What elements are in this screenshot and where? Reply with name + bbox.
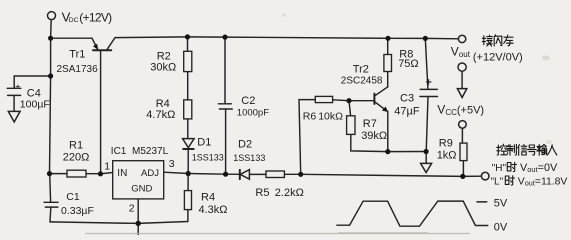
Vcc(+5V) arrow head [457, 89, 466, 98]
transistor Tr1 base lead [100, 50, 102, 174]
junction: Tr1 base / R1 / IC pin1 node [98, 171, 103, 176]
junction: R5 / R6 control node [298, 172, 303, 177]
transistor Tr1 emitter diagonal [92, 38, 98, 49]
wire: D1 cathode to ADJ row [187, 149, 189, 173]
svg-text:VCC(+5V): VCC(+5V) [437, 103, 484, 117]
node label: 输 (chinese) [537, 144, 547, 155]
wire: top rail right segment (Tr1 collector to Vout terminal) [115, 37, 458, 39]
wire: R6 to Tr2 base node [333, 99, 349, 102]
svg-text:2SA1736: 2SA1736 [57, 64, 99, 75]
junction: Tr2 emitter on ground row [385, 149, 390, 154]
svg-text:1SS133: 1SS133 [192, 152, 224, 162]
junction: C2 top on rail [222, 35, 227, 40]
scan artifact line at bottom [85, 233, 470, 235]
wire: bottom ground rail [50, 222, 188, 224]
svg-text:D2: D2 [238, 138, 252, 150]
wire: Tr2 base node down to R7 [349, 101, 351, 116]
wire: R6 branch vertical from control node [299, 100, 315, 175]
svg-text:2: 2 [129, 202, 135, 214]
svg-text:R4: R4 [156, 98, 170, 110]
resistor R9 1k body [460, 143, 467, 161]
transistor Tr2 base lead [349, 100, 374, 102]
wire: R4b column (ADJ node down to bottom rail) [187, 174, 189, 222]
resistor R4 4.3k body [184, 191, 191, 210]
resistor R4 4.7k body [184, 100, 192, 119]
waveform: control signal trace [337, 201, 488, 226]
node label: 号 (chinese) [527, 145, 536, 155]
waveform: 5V level dash [477, 201, 487, 203]
svg-text:IN: IN [117, 168, 127, 179]
svg-text:R1: R1 [69, 140, 83, 152]
wire: R8 top lead to rail [387, 38, 389, 54]
svg-text:39kΩ: 39kΩ [361, 130, 387, 142]
resistor R7 39k body [347, 116, 355, 135]
node label: 闪 (chinese) [494, 35, 502, 46]
svg-text:4.7kΩ: 4.7kΩ [146, 109, 175, 121]
junction: Tr2 base node [346, 98, 351, 103]
wire: C1 leads [50, 174, 51, 222]
wire: ADJ row (IC pin3 to D1 node to C2 node to D2) [164, 172, 240, 174]
svg-text:C4: C4 [27, 87, 41, 99]
svg-text:Vout: Vout [451, 45, 471, 59]
junction: R2 top on rail [185, 34, 190, 39]
node label: 控 (chinese) [497, 144, 507, 155]
diode D2 triangle [240, 170, 249, 180]
wire: R9 bottom lead to control row [462, 161, 464, 177]
wire: R4 to D1 anode [187, 119, 189, 138]
terminal: Vdc input [48, 12, 56, 20]
svg-text:2SC2458: 2SC2458 [341, 76, 383, 87]
wire: C3 column lower to ground node [426, 97, 428, 164]
ground symbol under C4 [8, 111, 20, 122]
node label: 接 (chinese) [482, 35, 492, 46]
transistor Tr2 emitter diagonal [375, 102, 387, 111]
transistor Tr1 2SA1736 (PNP) base bar [93, 49, 111, 51]
svg-text:5V: 5V [494, 198, 508, 210]
node label: 时 (chinese) after L [505, 176, 514, 185]
svg-text:R5: R5 [255, 187, 269, 199]
svg-text:1kΩ: 1kΩ [437, 149, 457, 161]
svg-text:10kΩ: 10kΩ [318, 111, 343, 123]
resistor R8 75 ohm body [384, 55, 392, 72]
svg-text:75Ω: 75Ω [398, 58, 418, 70]
wire: branch to C4 [14, 76, 50, 88]
svg-text:1SS133: 1SS133 [233, 153, 265, 163]
svg-text:VDC(+12V): VDC(+12V) [62, 9, 113, 24]
diode D2 1SS133 cathode bar [239, 170, 241, 179]
svg-text:C3: C3 [400, 93, 414, 105]
svg-text:R6: R6 [303, 111, 317, 123]
wire: D2 anode to R5 [250, 173, 267, 175]
svg-text:IC1: IC1 [111, 146, 127, 157]
svg-text:Tr1: Tr1 [69, 48, 85, 60]
junction: C4 branch [48, 73, 53, 78]
transistor Tr1 emitter arrow [93, 44, 98, 50]
node label: 存 (chinese) [504, 35, 514, 46]
node label: 信 (chinese) [518, 145, 527, 156]
svg-text:1000pF: 1000pF [237, 108, 269, 119]
svg-text:3: 3 [169, 158, 175, 170]
svg-text:GND: GND [131, 183, 152, 194]
svg-text:30kΩ: 30kΩ [150, 61, 176, 73]
wire: IC pin2 ground stub below rail [137, 199, 139, 235]
junction: R8 top on rail [385, 36, 390, 41]
svg-text:M5237L: M5237L [132, 146, 169, 157]
svg-text:D1: D1 [197, 136, 211, 148]
svg-text:220Ω: 220Ω [63, 151, 90, 163]
capacitor C2 1000pF plates [218, 104, 232, 109]
svg-text:R7: R7 [363, 118, 377, 130]
wire: R1 row (node to R1, R1 to Tr1 base node, node to IC pin1) [50, 173, 113, 174]
capacitor C4 100uF plates [7, 88, 21, 95]
junction: Vdc at top rail [48, 36, 53, 41]
svg-text:C1: C1 [66, 191, 80, 203]
svg-text:2.2kΩ: 2.2kΩ [275, 187, 304, 199]
wire: Vdc vertical feed (terminal down to R1 row) [50, 19, 52, 173]
svg-text:"H": "H" [492, 163, 507, 174]
capacitor C4 polarity plus [16, 85, 20, 89]
svg-text:0V: 0V [494, 222, 508, 234]
junction: R1 left node [47, 171, 52, 176]
svg-text:C2: C2 [241, 95, 255, 107]
svg-text:ADJ: ADJ [141, 168, 159, 179]
transistor Tr1 collector diagonal [107, 38, 115, 51]
node label: 时 (chinese) after H [507, 162, 516, 171]
wire: Tr2 emitter lead down [387, 111, 389, 151]
transistor Tr2 collector diagonal [375, 87, 388, 96]
svg-text:"L": "L" [491, 176, 504, 187]
svg-text:(+12V/0V): (+12V/0V) [473, 52, 523, 64]
transistor Tr2 emitter arrow [382, 107, 388, 112]
node label: 制 (chinese) [507, 144, 517, 155]
svg-text:4.3kΩ: 4.3kΩ [199, 204, 228, 216]
terminal: Vcc(+5V) feed to R9 [459, 121, 467, 129]
svg-text:47µF: 47µF [394, 106, 420, 118]
svg-text:Vout=0V: Vout=0V [520, 162, 558, 174]
junction: C3 ground node [424, 149, 429, 154]
junction: C3 top on rail [423, 36, 428, 41]
wire: R8 bottom to Tr2 collector [387, 72, 389, 87]
wire: top +12V rail left segment (Vdc node to Tr1 emitter) [51, 37, 92, 39]
wire: R7 bottom to emitter row [351, 134, 426, 151]
terminal: control signal input [481, 172, 489, 180]
wire: R5 to control node [284, 173, 300, 175]
wire: C2 column lower [225, 109, 227, 174]
op-amp-style regulator IC1 M5237L body [113, 161, 164, 199]
terminal: Vout [458, 35, 465, 42]
svg-text:1: 1 [104, 161, 110, 173]
svg-text:R9: R9 [439, 138, 453, 150]
diode D1 1SS133 triangle [183, 139, 195, 148]
wire: R2 to R4 link [187, 72, 189, 100]
junction: IC pin2 on bottom rail [136, 221, 141, 226]
wire: control row (R5 node to R9 node to control terminal) [301, 174, 482, 176]
diode D1 cathode bar [183, 148, 194, 150]
ground symbol under C3 [421, 163, 432, 172]
resistor R5 2.2k body [266, 171, 284, 178]
wire: C3 column upper [425, 38, 428, 89]
capacitor C3 polarity plus [426, 79, 432, 85]
svg-text:Vout=11.8V: Vout=11.8V [518, 176, 568, 187]
svg-text:0.33µF: 0.33µF [61, 205, 94, 217]
capacitor C1 0.33uF plates [44, 202, 58, 207]
transistor Tr2 2SC2458 (NPN) base bar [373, 94, 375, 104]
junction: C2 bottom node [223, 172, 228, 177]
wire: R9 top lead from Vcc terminal [461, 128, 463, 143]
svg-text:R4: R4 [201, 191, 215, 203]
capacitor C3 47uF plates [420, 89, 438, 96]
resistor R6 10k body [315, 96, 332, 102]
junction: D1 / R4b / ADJ row node [186, 171, 191, 176]
resistor R2 30k body [184, 51, 192, 71]
svg-text:Tr2: Tr2 [353, 64, 369, 76]
wire: C4 lower lead to ground [13, 96, 15, 112]
wire: C2 column upper [224, 37, 226, 103]
wire: R2 column (top rail to R2) [187, 37, 189, 51]
terminal: Vcc arrow top [458, 63, 466, 71]
scan smudges (decorative noise kept minimal) [542, 56, 550, 61]
wire: Vcc arrow stem [461, 71, 463, 88]
junction: R9 bottom node [460, 174, 465, 179]
svg-text:100µF: 100µF [20, 99, 50, 111]
node label: 入 (chinese) [547, 145, 556, 155]
resistor R1 220 ohm body [67, 170, 86, 177]
